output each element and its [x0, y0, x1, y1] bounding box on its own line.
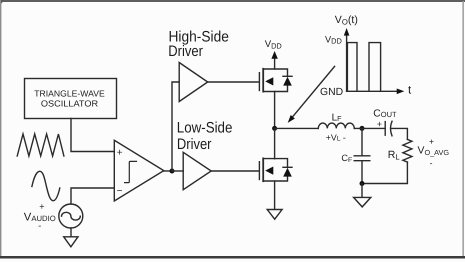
ground (Q2 source) [267, 210, 282, 220]
svg-text:-: - [38, 221, 41, 231]
wire COUT to RL [391, 128, 407, 139]
wire switch node to LF [275, 127, 319, 129]
svg-text:+VL -: +VL - [326, 132, 346, 142]
wire comparator output to node [164, 170, 172, 172]
wire high-side driver to Q1 gate [208, 81, 260, 83]
svg-text:OSCILLATOR: OSCILLATOR [41, 98, 98, 108]
triangle-wave symbol [17, 134, 64, 156]
x-axis [347, 90, 398, 92]
wire oscillator output to comparator + input [71, 119, 114, 152]
wire LF node to COUT [354, 127, 385, 129]
inductor LF [318, 123, 354, 128]
capacitor COUT [385, 121, 392, 136]
wire Q2 source to ground [274, 181, 276, 209]
svg-text:VDD: VDD [265, 39, 282, 50]
y-axis [346, 34, 348, 92]
node LF output junction [360, 126, 365, 131]
wire CF bottom to rail [361, 161, 363, 184]
svg-text:LF: LF [332, 113, 343, 124]
comparator U2 [114, 140, 164, 201]
border frame right [462, 1, 464, 257]
ground (output filter) [354, 197, 371, 207]
svg-text:+: + [39, 201, 44, 211]
source VAUDIO sine [62, 212, 81, 220]
svg-text:GND: GND [320, 87, 343, 98]
svg-text:+: + [377, 119, 382, 129]
border frame left [0, 0, 1, 257]
border frame top [0, 0, 465, 2]
label VAUDIO [24, 201, 56, 230]
border frame bottom [0, 256, 465, 259]
transistor Q1 high-side MOSFET [259, 69, 292, 92]
wire node to high-side driver input [172, 82, 179, 171]
svg-text:COUT: COUT [373, 108, 397, 119]
source VAUDIO circle [59, 204, 83, 228]
wire Vaudio to ground [70, 228, 72, 237]
svg-text:Driver: Driver [168, 43, 203, 60]
wire node to low-side driver input [172, 170, 183, 172]
svg-text:+: + [429, 136, 434, 146]
svg-text:VDD: VDD [325, 34, 342, 45]
annotation arrow waveform to switch node [292, 66, 335, 117]
wire switch node to Q2 drain [274, 128, 276, 158]
resistor RL [403, 139, 412, 162]
buffer high-side driver [179, 63, 208, 102]
oscillator block U1 label [34, 88, 105, 108]
node bottom rail junction [360, 181, 365, 186]
capacitor CF [354, 156, 370, 161]
transistor Q2 low-side MOSFET [259, 158, 292, 181]
wire Vaudio source to comparator - input [71, 188, 114, 204]
wire Q1 source to switch node [274, 92, 276, 127]
ground (Vaudio) [64, 237, 78, 247]
svg-text:−: − [117, 186, 123, 197]
oscillator block U1 box [25, 79, 117, 119]
svg-text:Low-Side: Low-Side [177, 120, 233, 137]
svg-text:+: + [117, 148, 123, 159]
svg-text:Driver: Driver [177, 136, 212, 153]
VDD supply arrow [274, 58, 276, 69]
node switching node [272, 126, 277, 131]
svg-text:TRIANGLE-WAVE: TRIANGLE-WAVE [34, 88, 105, 98]
wire rail to ground [361, 184, 363, 198]
label High-Side Driver [168, 29, 229, 60]
wire RL to bottom rail [362, 162, 407, 183]
comparator step symbol [125, 161, 137, 182]
label VO_AVG [418, 136, 450, 168]
buffer low-side driver [183, 152, 211, 189]
svg-text:-: - [430, 158, 433, 168]
svg-text:VO_AVG: VO_AVG [418, 145, 450, 156]
wire low-side driver to Q2 gate [211, 170, 259, 172]
sine-wave symbol [32, 171, 60, 200]
wire node to CF top [361, 128, 363, 155]
waveform pulses [347, 43, 380, 92]
waveform graph VO(t) [344, 28, 405, 94]
label Low-Side Driver [177, 120, 233, 153]
node comparator output junction [170, 169, 175, 174]
